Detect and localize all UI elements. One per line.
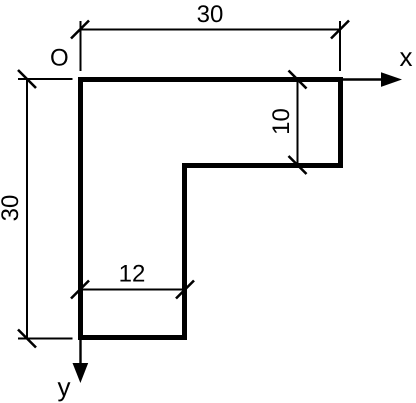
top dimension tick left [71, 21, 89, 39]
L-section outline [81, 80, 341, 338]
left dimension line 30 [26, 79, 28, 339]
top dimension extension line left [80, 21, 82, 71]
origin label O [50, 45, 69, 72]
top dimension label 30 [197, 1, 224, 28]
x axis arrowhead [381, 72, 402, 87]
dimension 10 tick bottom [289, 156, 307, 174]
y axis arrowhead [73, 363, 89, 383]
y axis label [58, 372, 71, 402]
x axis label [400, 42, 413, 72]
dimension line 12 [80, 289, 185, 291]
svg-text:y: y [58, 372, 71, 402]
left dimension label 30 rotated [0, 195, 24, 222]
dimension label 12 [119, 261, 146, 288]
svg-text:30: 30 [197, 1, 224, 28]
svg-text:30: 30 [0, 195, 24, 222]
dimension label 10 rotated [268, 108, 295, 135]
x axis line [343, 78, 383, 80]
top dimension tick right [331, 21, 349, 39]
dimension 10 tick top [289, 71, 307, 89]
dimension 12 tick left [71, 281, 89, 299]
left dimension tick top [18, 70, 36, 88]
dimension 12 tick right [176, 281, 194, 299]
svg-text:x: x [400, 42, 413, 72]
svg-text:10: 10 [268, 108, 295, 135]
left dimension tick bottom [18, 330, 36, 348]
y axis line [79, 340, 81, 364]
top dimension extension line right [339, 21, 341, 71]
left dimension extension line bottom [18, 338, 73, 340]
dimension line 10 [297, 80, 299, 166]
top dimension line 30 [80, 29, 340, 31]
svg-text:12: 12 [119, 261, 146, 288]
left dimension extension line top [18, 78, 73, 80]
svg-text:O: O [50, 45, 69, 72]
